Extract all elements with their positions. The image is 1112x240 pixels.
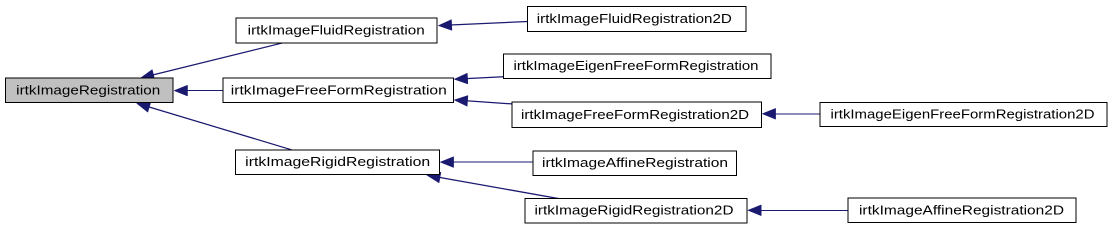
node fluid: class irtkImageFluidRegistration <box>236 18 437 43</box>
node ffd: class irtkImageFreeFormRegistration <box>223 78 454 103</box>
svg-text:irtkImageEigenFreeFormRegistra: irtkImageEigenFreeFormRegistration <box>514 58 759 73</box>
wire: inheritance arrow eigen to freeform <box>454 73 503 84</box>
svg-text:irtkImageFluidRegistration2D: irtkImageFluidRegistration2D <box>537 11 732 26</box>
svg-text:irtkImageFreeFormRegistration2: irtkImageFreeFormRegistration2D <box>521 107 749 122</box>
node fluid2d: class irtkImageFluidRegistration2D <box>528 7 747 32</box>
node affine2d: class irtkImageAffineRegistration2D <box>848 198 1076 222</box>
wire: inheritance arrow rigid2d to rigid <box>427 172 559 198</box>
wire: inheritance arrow rigid to base <box>137 102 292 150</box>
node ffd2d: class irtkImageFreeFormRegistration2D <box>512 102 762 127</box>
wire: inheritance arrow ffd2d to freeform <box>454 96 512 107</box>
node eigen2d: class irtkImageEigenFreeFormRegistration2D <box>820 102 1107 126</box>
svg-text:irtkImageFreeFormRegistration: irtkImageFreeFormRegistration <box>231 82 447 97</box>
svg-text:irtkImageEigenFreeFormRegistra: irtkImageEigenFreeFormRegistration2D <box>831 106 1095 121</box>
node base: class irtkImageRegistration <box>5 78 173 102</box>
svg-text:irtkImageRegistration: irtkImageRegistration <box>16 82 160 97</box>
wire: inheritance arrow fluid2d to fluid <box>438 20 527 31</box>
node rigid: class irtkImageRigidRegistration <box>236 150 440 174</box>
wire: inheritance arrow fluid to base <box>141 43 284 80</box>
node eigen: class irtkImageEigenFreeFormRegistration <box>503 54 771 79</box>
svg-text:irtkImageRigidRegistration2D: irtkImageRigidRegistration2D <box>535 203 734 218</box>
wire: inheritance arrow freeform to base <box>174 85 223 96</box>
svg-text:irtkImageAffineRegistration: irtkImageAffineRegistration <box>542 155 728 170</box>
node rigid2d: class irtkImageRigidRegistration2D <box>525 199 747 223</box>
wire: inheritance arrow eigen2d to ffd2d <box>762 108 820 119</box>
svg-text:irtkImageRigidRegistration: irtkImageRigidRegistration <box>245 154 430 169</box>
wire: inheritance arrow affine2d to rigid2d <box>748 205 848 216</box>
node affine: class irtkImageAffineRegistration <box>533 151 737 176</box>
svg-text:irtkImageFluidRegistration: irtkImageFluidRegistration <box>248 22 425 37</box>
wire: inheritance arrow affine to rigid <box>440 157 533 168</box>
svg-text:irtkImageAffineRegistration2D: irtkImageAffineRegistration2D <box>859 202 1064 217</box>
